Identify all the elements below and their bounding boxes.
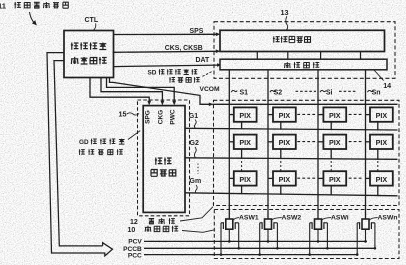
label 11 (liquid crystal display device title) [0, 2, 68, 11]
pixel PIX row1 col2 [268, 107, 296, 129]
ellipsis row 2 between columns [297, 141, 362, 143]
ellipsis row 1 between columns [297, 113, 362, 115]
block: sampling circuit [220, 59, 387, 70]
wire S2 (source line) [267, 70, 269, 219]
label GD scan signal line drive circuit [79, 139, 125, 155]
connector shift-register to sampling 3 [320, 51, 322, 59]
transistor ASWn (analog switch) [356, 219, 376, 256]
pixel PIX row3 col4 [366, 171, 393, 196]
leader tilde S2 [270, 90, 276, 92]
pixel PIX row2 col2 [268, 135, 296, 160]
block: shift register (SD) [220, 30, 385, 51]
pixel PIX row1 col4 [366, 107, 393, 130]
label 14 [383, 81, 391, 90]
leader ASW1 [233, 218, 239, 220]
wire PCCB bus [144, 247, 375, 249]
pixel PIX row1 col1 [229, 107, 256, 129]
label SPS [190, 28, 204, 35]
label Si [326, 90, 333, 97]
label 10 precharge circuit [128, 226, 179, 234]
leader tilde Si [320, 90, 326, 92]
bus wires from control box to precharge signals (hollow arrow) [47, 53, 113, 256]
label PWC (rotated) [170, 109, 177, 124]
block: shift register (GD) [143, 106, 185, 213]
pixel PIX row2 col3 [318, 135, 346, 160]
wire CKG feed [101, 78, 164, 106]
label S2 [274, 90, 283, 97]
label PCV [128, 239, 142, 246]
label VCOM [200, 86, 220, 93]
label ASW1 [239, 214, 259, 221]
pixel PIX row3 col2 [268, 171, 296, 195]
wire G1 (gate line) [185, 128, 398, 130]
wire Si (source line) [317, 70, 319, 219]
label Sn [372, 90, 381, 97]
label CTL [85, 17, 99, 24]
label 12 display part [130, 218, 175, 226]
leader ASWn [369, 218, 377, 220]
label CKS, CKSB [165, 45, 203, 52]
ellipsis between S2 and Si [296, 90, 317, 92]
leader ASWi [322, 218, 331, 220]
leader tilde S1 [231, 90, 237, 92]
label PCC [128, 253, 142, 260]
ellipsis between G2 and Gm [197, 164, 199, 175]
dashed box: display part [214, 100, 400, 205]
label DAT [196, 57, 210, 64]
wire S1 (source line) [228, 70, 230, 219]
ellipsis column 4 between rows [377, 161, 379, 173]
transistor ASW1 (analog switch) [220, 219, 240, 256]
label S1 [240, 90, 249, 97]
pixel PIX row3 col1 [229, 171, 256, 194]
leader 12 [180, 207, 213, 221]
label ASWn [378, 214, 398, 221]
block: control signal generating circuit [64, 31, 114, 78]
wire SPG feed [90, 78, 151, 106]
leader CTL to control box [94, 23, 96, 30]
leader 10 [182, 230, 215, 233]
leader GD label to box [128, 131, 140, 140]
label G2 [190, 140, 199, 147]
leader 14 [374, 70, 384, 81]
connector shift-register to sampling 4 [360, 51, 362, 59]
label ASW2 [282, 214, 302, 221]
wire SPS [114, 33, 221, 37]
pixel PIX row1 col3 [318, 107, 346, 130]
dashed box: precharge circuit [214, 210, 399, 259]
label CKG (rotated) [158, 110, 165, 124]
dashed leader to SD driver box [203, 72, 212, 77]
wire G2 (gate line) [185, 158, 398, 160]
label SD data signal line drive circuit [148, 69, 200, 82]
ellipsis column 1 between rows [241, 161, 243, 173]
ellipsis column 2 between rows [280, 161, 282, 173]
leader ASW2 [272, 218, 282, 220]
leader 13 [286, 16, 288, 30]
pixel PIX row3 col3 [318, 171, 346, 195]
pixel PIX row2 col4 [366, 135, 393, 160]
leader arrow for label 11 [30, 12, 37, 25]
connector shift-register to sampling 1 [256, 51, 258, 59]
leader tilde Sn [367, 90, 373, 92]
transistor ASWi (analog switch) [308, 219, 328, 256]
leader G2 [194, 147, 196, 158]
label ASWi [331, 214, 349, 221]
label G1 [189, 113, 198, 120]
label 15 [119, 109, 127, 118]
wire CKS,CKSB [114, 49, 221, 53]
wire Gm (gate line) [185, 193, 398, 196]
label PCCB [123, 246, 142, 253]
ellipsis column 3 between rows [330, 161, 332, 173]
dashed box: GD scan signal line drive circuit [138, 100, 190, 216]
ellipsis between Si and Sn [339, 90, 357, 92]
wire VCOM (diagonal, arrow into display part, top rail) [110, 78, 398, 107]
wire DAT [114, 63, 222, 67]
dashed box: SD data signal line drive circuit [214, 22, 395, 79]
wire PCV bus [144, 240, 367, 242]
label Gm [190, 178, 202, 185]
pixel PIX row2 col1 [229, 135, 256, 159]
leader Gm [195, 185, 197, 193]
connector shift-register to sampling 2 [287, 51, 289, 59]
transistor ASW2 (analog switch) [258, 219, 278, 256]
label 13 [281, 8, 289, 17]
scan noise overlay [0, 0, 1, 1]
ellipsis row 3 between columns [297, 177, 362, 179]
label SPG (rotated) [145, 110, 152, 124]
leader G1 [194, 120, 196, 129]
wire PWC feed [107, 78, 177, 106]
wire Sn (source line) [365, 70, 367, 219]
leader 15 (squiggle) [127, 113, 139, 115]
wire PCC bus [144, 254, 358, 256]
